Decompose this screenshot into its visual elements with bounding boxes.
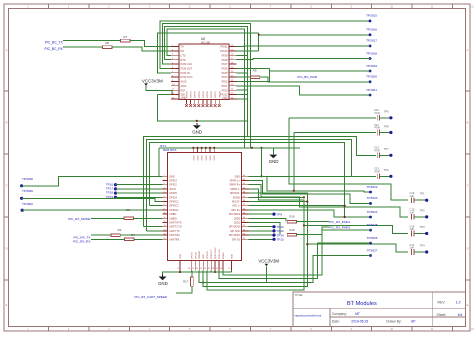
svg-text:3: 3 (164, 183, 165, 185)
svg-text:TP3028: TP3028 (22, 177, 33, 181)
svg-text:VCC3V3M: VCC3V3M (142, 78, 163, 83)
svg-text:Company:: Company: (332, 312, 347, 316)
svg-text:GND: GND (214, 155, 216, 160)
svg-text:47nF: 47nF (374, 126, 380, 130)
svg-text:1: 1 (164, 175, 165, 177)
svg-text:32: 32 (243, 225, 245, 227)
svg-text:PIO9: PIO9 (222, 53, 228, 57)
svg-text:PCM OUT: PCM OUT (211, 248, 213, 259)
svg-text:4: 4 (164, 187, 165, 189)
svg-text:PCM CLK: PCM CLK (219, 249, 221, 259)
svg-text:PCM CLK: PCM CLK (181, 62, 193, 66)
svg-text:REV:: REV: (438, 300, 446, 304)
svg-text:UART CTS: UART CTS (169, 226, 182, 229)
svg-text:26: 26 (220, 268, 222, 270)
svg-text:12: 12 (164, 221, 166, 223)
svg-text:14: 14 (164, 229, 166, 231)
svg-text:GPIO5: GPIO5 (169, 192, 177, 195)
svg-text:SPKR R-: SPKR R- (230, 192, 240, 195)
svg-text:5: 5 (164, 192, 165, 194)
svg-text:BT1: BT1 (160, 144, 166, 148)
svg-text:PIO0: PIO0 (222, 88, 228, 92)
svg-text:TP3026: TP3026 (367, 236, 378, 240)
svg-text:C: C (6, 184, 8, 188)
svg-text:UARTRX: UARTRX (169, 238, 180, 241)
svg-text:B: B (467, 121, 469, 125)
svg-text:MIC BIAS: MIC BIAS (229, 213, 240, 216)
svg-text:R3: R3 (118, 228, 122, 232)
svg-text:4/4: 4/4 (458, 313, 463, 317)
svg-text:20: 20 (196, 268, 198, 270)
svg-text:TP4: TP4 (420, 243, 425, 247)
svg-text:GPIO8: GPIO8 (219, 91, 221, 98)
svg-text:16: 16 (164, 238, 166, 240)
svg-text:GND: GND (269, 159, 279, 164)
svg-text:TITLE:: TITLE: (295, 293, 304, 297)
svg-text:AVCO: AVCO (169, 188, 176, 191)
svg-text:GPIO7: GPIO7 (215, 91, 217, 98)
svg-text:UART RTS: UART RTS (169, 222, 182, 225)
svg-text:PCM SYN: PCM SYN (181, 75, 193, 79)
svg-text:7: 7 (164, 200, 165, 202)
svg-text:TP3023: TP3023 (367, 196, 378, 200)
svg-text:GPIO4: GPIO4 (203, 91, 205, 98)
svg-text:USBD+: USBD+ (169, 217, 178, 220)
svg-text:2019-05-15: 2019-05-15 (351, 320, 368, 324)
svg-text:SPKR L+: SPKR L+ (230, 180, 241, 183)
svg-text:TP3025: TP3025 (367, 223, 378, 227)
svg-text:VCC3V3M: VCC3V3M (258, 259, 279, 264)
svg-text:42: 42 (243, 183, 245, 185)
svg-text:TP8: TP8 (384, 124, 389, 128)
svg-text:TP3024: TP3024 (367, 210, 378, 214)
svg-text:TP3018: TP3018 (366, 51, 377, 55)
svg-text:UART TX: UART TX (169, 230, 180, 233)
svg-text:1uF: 1uF (410, 246, 415, 250)
svg-text:18: 18 (188, 268, 190, 270)
svg-text:SPKR R+: SPKR R+ (229, 184, 240, 187)
svg-text:24: 24 (212, 268, 214, 270)
svg-text:GPIO6: GPIO6 (211, 91, 213, 98)
svg-text:D: D (6, 247, 8, 251)
svg-text:GPIO0: GPIO0 (187, 91, 189, 98)
svg-text:29: 29 (243, 238, 245, 240)
svg-text:E: E (6, 303, 8, 307)
svg-text:PCM IN: PCM IN (181, 71, 190, 75)
svg-text:2: 2 (164, 179, 165, 181)
svg-text:TP9: TP9 (384, 168, 389, 172)
svg-text:GPIO4: GPIO4 (169, 196, 177, 199)
svg-text:GPIOC3: GPIOC3 (169, 205, 179, 208)
svg-text:Sheet:: Sheet: (437, 313, 447, 317)
svg-text:GND: GND (197, 155, 199, 160)
svg-text:BT Modules: BT Modules (347, 301, 377, 307)
svg-text:GND: GND (202, 155, 204, 160)
svg-text:44: 44 (243, 175, 245, 177)
svg-text:MT: MT (355, 312, 360, 316)
svg-text:RST: RST (181, 88, 187, 92)
svg-text:SPI SCK: SPI SCK (230, 230, 240, 233)
svg-text:USBD-: USBD- (169, 213, 177, 216)
svg-text:TP3022: TP3022 (367, 185, 378, 189)
svg-text:SPKR L-: SPKR L- (230, 188, 240, 191)
svg-text:47nF: 47nF (374, 170, 380, 174)
svg-text:SPI SS: SPI SS (232, 238, 240, 241)
svg-text:SPI MOSI: SPI MOSI (229, 226, 240, 229)
svg-text:43: 43 (243, 179, 245, 181)
svg-text:HC-08: HC-08 (201, 41, 210, 45)
svg-text:A: A (467, 48, 469, 52)
svg-text:11: 11 (164, 217, 166, 219)
svg-text:RX: RX (181, 49, 185, 53)
svg-text:B: B (6, 121, 8, 125)
svg-text:GPIO5: GPIO5 (207, 91, 209, 98)
svg-text:1uF: 1uF (410, 227, 415, 231)
svg-text:PIC_RX_UART_SPEED: PIC_RX_UART_SPEED (135, 295, 168, 299)
svg-text:1uF: 1uF (410, 194, 415, 198)
svg-text:MODE: MODE (223, 252, 225, 259)
svg-text:PIO7: PIO7 (222, 62, 228, 66)
svg-text:TP3017: TP3017 (366, 39, 377, 43)
svg-text:PIO2: PIO2 (222, 80, 228, 84)
svg-text:PCM IN: PCM IN (207, 251, 209, 259)
svg-text:GND: GND (234, 175, 240, 178)
svg-text:GND: GND (210, 155, 212, 160)
svg-text:SPI MISO: SPI MISO (229, 234, 240, 237)
svg-text:TP3020: TP3020 (366, 75, 377, 79)
svg-text:MIC L-: MIC L- (233, 205, 241, 208)
svg-text:9: 9 (164, 208, 165, 210)
svg-text:R7: R7 (123, 35, 127, 39)
svg-text:PIC_BC_PAIR: PIC_BC_PAIR (297, 75, 318, 79)
svg-text:21: 21 (200, 268, 202, 270)
svg-text:GPIO1: GPIO1 (191, 91, 193, 98)
svg-text:6: 6 (164, 196, 165, 198)
svg-text:R8: R8 (253, 69, 257, 73)
svg-text:R18: R18 (289, 228, 295, 232)
svg-text:GND: GND (180, 254, 182, 259)
svg-text:40: 40 (243, 192, 245, 194)
svg-text:LED1: LED1 (234, 222, 241, 225)
svg-text:PIC_RX_PAIR2: PIC_RX_PAIR2 (329, 225, 350, 229)
svg-text:10: 10 (164, 213, 166, 215)
svg-text:MIC R-: MIC R- (232, 201, 240, 204)
svg-text:34: 34 (243, 217, 245, 219)
svg-text:PIO6: PIO6 (222, 67, 228, 71)
svg-text:VDD: VDD (203, 254, 205, 259)
svg-text:GPIO9: GPIO9 (195, 251, 197, 258)
svg-text:PCM OUT: PCM OUT (181, 67, 193, 71)
svg-text:PWREN: PWREN (199, 250, 201, 259)
svg-text:PIC_BC_TX: PIC_BC_TX (45, 41, 64, 45)
svg-text:GND: GND (223, 97, 228, 99)
svg-text:GND: GND (169, 175, 175, 178)
svg-text:GPIO3: GPIO3 (169, 180, 177, 183)
svg-text:35: 35 (243, 213, 245, 215)
svg-text:47nF: 47nF (374, 111, 380, 115)
svg-text:E: E (467, 303, 469, 307)
svg-text:R4: R4 (131, 233, 135, 237)
svg-text:AIO1: AIO1 (181, 84, 187, 88)
svg-text:PIC_BC_RX: PIC_BC_RX (44, 47, 63, 51)
svg-text:TP15: TP15 (277, 238, 285, 242)
svg-text:LED0: LED0 (234, 217, 241, 220)
svg-text:AIO0: AIO0 (181, 80, 187, 84)
svg-text:TP3029: TP3029 (22, 189, 33, 193)
svg-text:R6: R6 (105, 41, 109, 45)
svg-text:PIC_RX_RX: PIC_RX_RX (73, 240, 90, 244)
svg-text:TP3: TP3 (420, 225, 425, 229)
svg-text:GND: GND (158, 281, 168, 286)
svg-text:PIO10: PIO10 (220, 49, 228, 53)
svg-text:A: A (6, 48, 8, 52)
svg-text:19: 19 (192, 268, 194, 270)
svg-text:TX: TX (181, 45, 185, 49)
svg-text:36: 36 (243, 208, 245, 210)
svg-text:GPIOC1: GPIOC1 (169, 209, 179, 212)
svg-text:GPIOC2: GPIOC2 (169, 201, 179, 204)
svg-text:TP3000: TP3000 (22, 202, 33, 206)
svg-text:R5: R5 (126, 208, 130, 212)
svg-text:Drawn By:: Drawn By: (386, 320, 401, 324)
svg-text:PIO8: PIO8 (222, 58, 228, 62)
svg-text:easyeda.com/sch/bt-mod: easyeda.com/sch/bt-mod (295, 314, 322, 317)
svg-text:R17: R17 (183, 280, 189, 284)
svg-text:31: 31 (243, 229, 245, 231)
svg-text:PIC_RX_PAIR1: PIC_RX_PAIR1 (329, 220, 350, 224)
svg-text:27: 27 (228, 268, 230, 270)
svg-text:33: 33 (243, 221, 245, 223)
svg-text:TP3021: TP3021 (366, 88, 377, 92)
svg-text:GPIO2: GPIO2 (169, 184, 177, 187)
svg-text:17: 17 (177, 268, 179, 270)
svg-text:PIO3: PIO3 (222, 75, 228, 79)
svg-text:TP2: TP2 (420, 208, 425, 212)
svg-text:Date:: Date: (332, 320, 340, 324)
svg-text:39: 39 (243, 196, 245, 198)
svg-text:30: 30 (243, 234, 245, 236)
svg-text:37: 37 (243, 204, 245, 206)
svg-text:TP3016: TP3016 (366, 28, 377, 32)
svg-text:C: C (467, 184, 469, 188)
svg-text:TP1: TP1 (420, 192, 425, 196)
svg-text:47nF: 47nF (374, 149, 380, 153)
svg-text:PIO11: PIO11 (220, 45, 228, 49)
svg-text:GPIO2: GPIO2 (195, 91, 197, 98)
svg-text:TP3015: TP3015 (366, 14, 377, 18)
svg-text:41: 41 (243, 187, 245, 189)
svg-text:25: 25 (216, 268, 218, 270)
svg-text:22: 22 (204, 268, 206, 270)
svg-text:GND: GND (232, 254, 234, 259)
svg-text:RTS: RTS (181, 58, 186, 62)
svg-text:R16: R16 (289, 215, 295, 219)
svg-text:38: 38 (243, 200, 245, 202)
svg-text:13: 13 (164, 225, 166, 227)
svg-text:PCM SYNC: PCM SYNC (215, 247, 217, 259)
svg-text:23: 23 (208, 268, 210, 270)
svg-text:1uF: 1uF (410, 211, 415, 215)
svg-text:GND: GND (181, 97, 186, 99)
svg-text:TP3019: TP3019 (366, 64, 377, 68)
svg-text:GND: GND (206, 155, 208, 160)
svg-text:GPIO3: GPIO3 (199, 91, 201, 98)
svg-text:1.0: 1.0 (456, 300, 461, 304)
svg-text:GND: GND (192, 130, 202, 135)
svg-text:GND: GND (193, 155, 195, 160)
svg-text:TP3027: TP3027 (367, 248, 378, 252)
svg-text:GPIO7: GPIO7 (191, 251, 193, 258)
svg-text:AGND: AGND (233, 196, 240, 199)
svg-text:UART RX: UART RX (169, 234, 180, 237)
svg-text:MIC R+: MIC R+ (231, 209, 240, 212)
svg-text:BM20 SPKS: BM20 SPKS (163, 149, 177, 152)
svg-text:PIO1: PIO1 (222, 84, 228, 88)
svg-text:8: 8 (164, 204, 165, 206)
svg-text:TP6: TP6 (384, 110, 389, 114)
svg-text:CTS: CTS (181, 53, 186, 57)
svg-text:TP7: TP7 (384, 147, 389, 151)
svg-text:PIC_RX_MODE: PIC_RX_MODE (68, 217, 90, 221)
svg-text:15: 15 (164, 234, 166, 236)
svg-text:PIO5: PIO5 (222, 71, 228, 75)
svg-text:D: D (467, 247, 469, 251)
svg-text:TP9: TP9 (277, 212, 283, 216)
